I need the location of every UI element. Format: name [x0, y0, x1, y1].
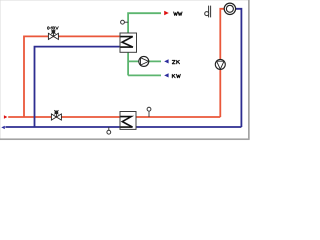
- label: 0-10 V: [48, 27, 59, 30]
- wire: warm water outlet pipe (green): [128, 13, 161, 33]
- sensor T1 (on WW pipe): [121, 20, 129, 24]
- wire: right blue drop: [235, 9, 241, 127]
- air vent symbol (top right): [205, 6, 211, 18]
- wire: left red riser to top circuit: [24, 36, 121, 117]
- expansion vessel / gauge (double circle, top right): [224, 3, 235, 14]
- wire: green pipe below heat exchanger U1: [127, 53, 129, 76]
- arrow: KW inlet (blue, points left): [164, 73, 168, 77]
- wire: left blue riser to top circuit: [35, 47, 121, 127]
- pump P2 (primary pump, right riser): [215, 59, 225, 69]
- wire: circulation branch pipe ZK (green): [128, 60, 161, 62]
- pump P1 (circulation pump, ZK line): [139, 56, 149, 66]
- sensor T3 (on bottom return, left of U2): [107, 127, 111, 134]
- arrow: ZK inlet (blue, points left): [164, 59, 168, 63]
- heat exchanger U2 (bottom): [120, 112, 136, 130]
- wire: right red riser: [220, 9, 224, 117]
- valve V2 (motor valve, bottom supply): [51, 110, 61, 120]
- label: ZK: [172, 60, 179, 63]
- sensor T2 (on bottom supply, right of U2): [147, 107, 151, 117]
- valve V1 (motor valve, top supply): [48, 30, 58, 40]
- wire: bottom primary return pipe (blue): [5, 126, 241, 128]
- wire: cold water pipe KW (green): [128, 74, 161, 76]
- heat exchanger U1 (top): [120, 33, 137, 52]
- arrow: WW outlet (red, points right): [164, 11, 169, 15]
- label: KW: [172, 74, 180, 77]
- arrow: primary supply inlet (red, points right, left edge): [4, 115, 8, 118]
- label: WW: [174, 12, 182, 15]
- arrow: primary return outlet (blue, points left, left edge): [1, 126, 5, 129]
- wire: bottom primary supply pipe (red): [8, 116, 220, 118]
